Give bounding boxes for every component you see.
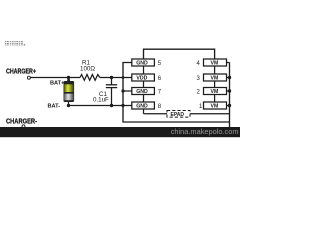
svg-text:0.1uF: 0.1uF xyxy=(93,97,109,104)
svg-text:china.makepolo.com: china.makepolo.com xyxy=(171,127,239,136)
svg-text:VM: VM xyxy=(211,76,219,82)
right bus vertical xyxy=(229,63,231,129)
battery BT1 xyxy=(64,78,75,106)
pin box VM 3 xyxy=(197,74,227,82)
pin box GND 5 xyxy=(132,59,162,67)
left spine between pin boxes xyxy=(143,66,145,74)
svg-text:BAT+: BAT+ xyxy=(50,81,65,87)
svg-text:CHARGER-: CHARGER- xyxy=(6,119,38,126)
terminal CHARGER+ xyxy=(27,76,30,79)
wire VM1 to right bus xyxy=(227,105,230,107)
svg-text:BAT-: BAT- xyxy=(48,104,61,110)
watermark bar xyxy=(0,127,240,137)
svg-text:VM: VM xyxy=(211,61,219,67)
wire left bus to GND7 xyxy=(123,90,132,92)
junction left bus x bottom wire xyxy=(121,104,124,107)
caption text 应用电路 (tiny gray CJK, drawn as blocks) xyxy=(5,41,25,46)
left bus vertical xyxy=(123,63,230,123)
EPAD pad (dashed) xyxy=(144,109,230,118)
junction right bus VM1 xyxy=(228,104,231,107)
svg-text:GND: GND xyxy=(136,104,148,110)
svg-text:GND: GND xyxy=(136,61,148,67)
junction C1 top xyxy=(110,76,113,79)
right spine between pin boxes xyxy=(214,66,216,74)
wire VM3 to right bus xyxy=(227,77,230,79)
svg-text:CHARGER+: CHARGER+ xyxy=(6,68,36,75)
junction battery bottom xyxy=(67,104,70,107)
wire VM4 to right bus xyxy=(227,62,230,64)
wire R1 to VDD pin xyxy=(100,77,132,79)
capacitor C1 xyxy=(111,78,113,85)
terminal CHARGER- xyxy=(22,125,25,128)
wire bottom (battery to GND pin 8) xyxy=(69,105,132,107)
svg-text:VM: VM xyxy=(211,89,219,95)
junction left bus x GND7 xyxy=(121,89,124,92)
wire VM2 to right bus xyxy=(227,90,230,92)
resistor R1 zigzag xyxy=(80,75,100,81)
pin box GND 7 xyxy=(132,88,162,96)
junction battery top xyxy=(67,76,70,79)
pin box VM 2 xyxy=(197,88,227,96)
junction right bus VM3 xyxy=(228,76,231,79)
svg-text:100Ω: 100Ω xyxy=(80,66,95,73)
svg-text:GND: GND xyxy=(136,89,148,95)
junction left bus x main wire xyxy=(122,76,125,79)
pin box VM 4 xyxy=(197,59,227,67)
svg-text:EPAD: EPAD xyxy=(171,112,185,118)
pin box VM 1 xyxy=(199,102,227,110)
junction C1 bottom xyxy=(110,104,113,107)
pin box GND 8 xyxy=(132,102,162,110)
wire main top (CHARGER+ to R1) xyxy=(31,77,81,79)
pin box VDD 6 xyxy=(132,74,162,82)
top loop wire xyxy=(144,49,215,59)
svg-text:VDD: VDD xyxy=(136,76,147,82)
junction right bus VM2 xyxy=(228,89,231,92)
svg-text:VM: VM xyxy=(211,104,219,110)
